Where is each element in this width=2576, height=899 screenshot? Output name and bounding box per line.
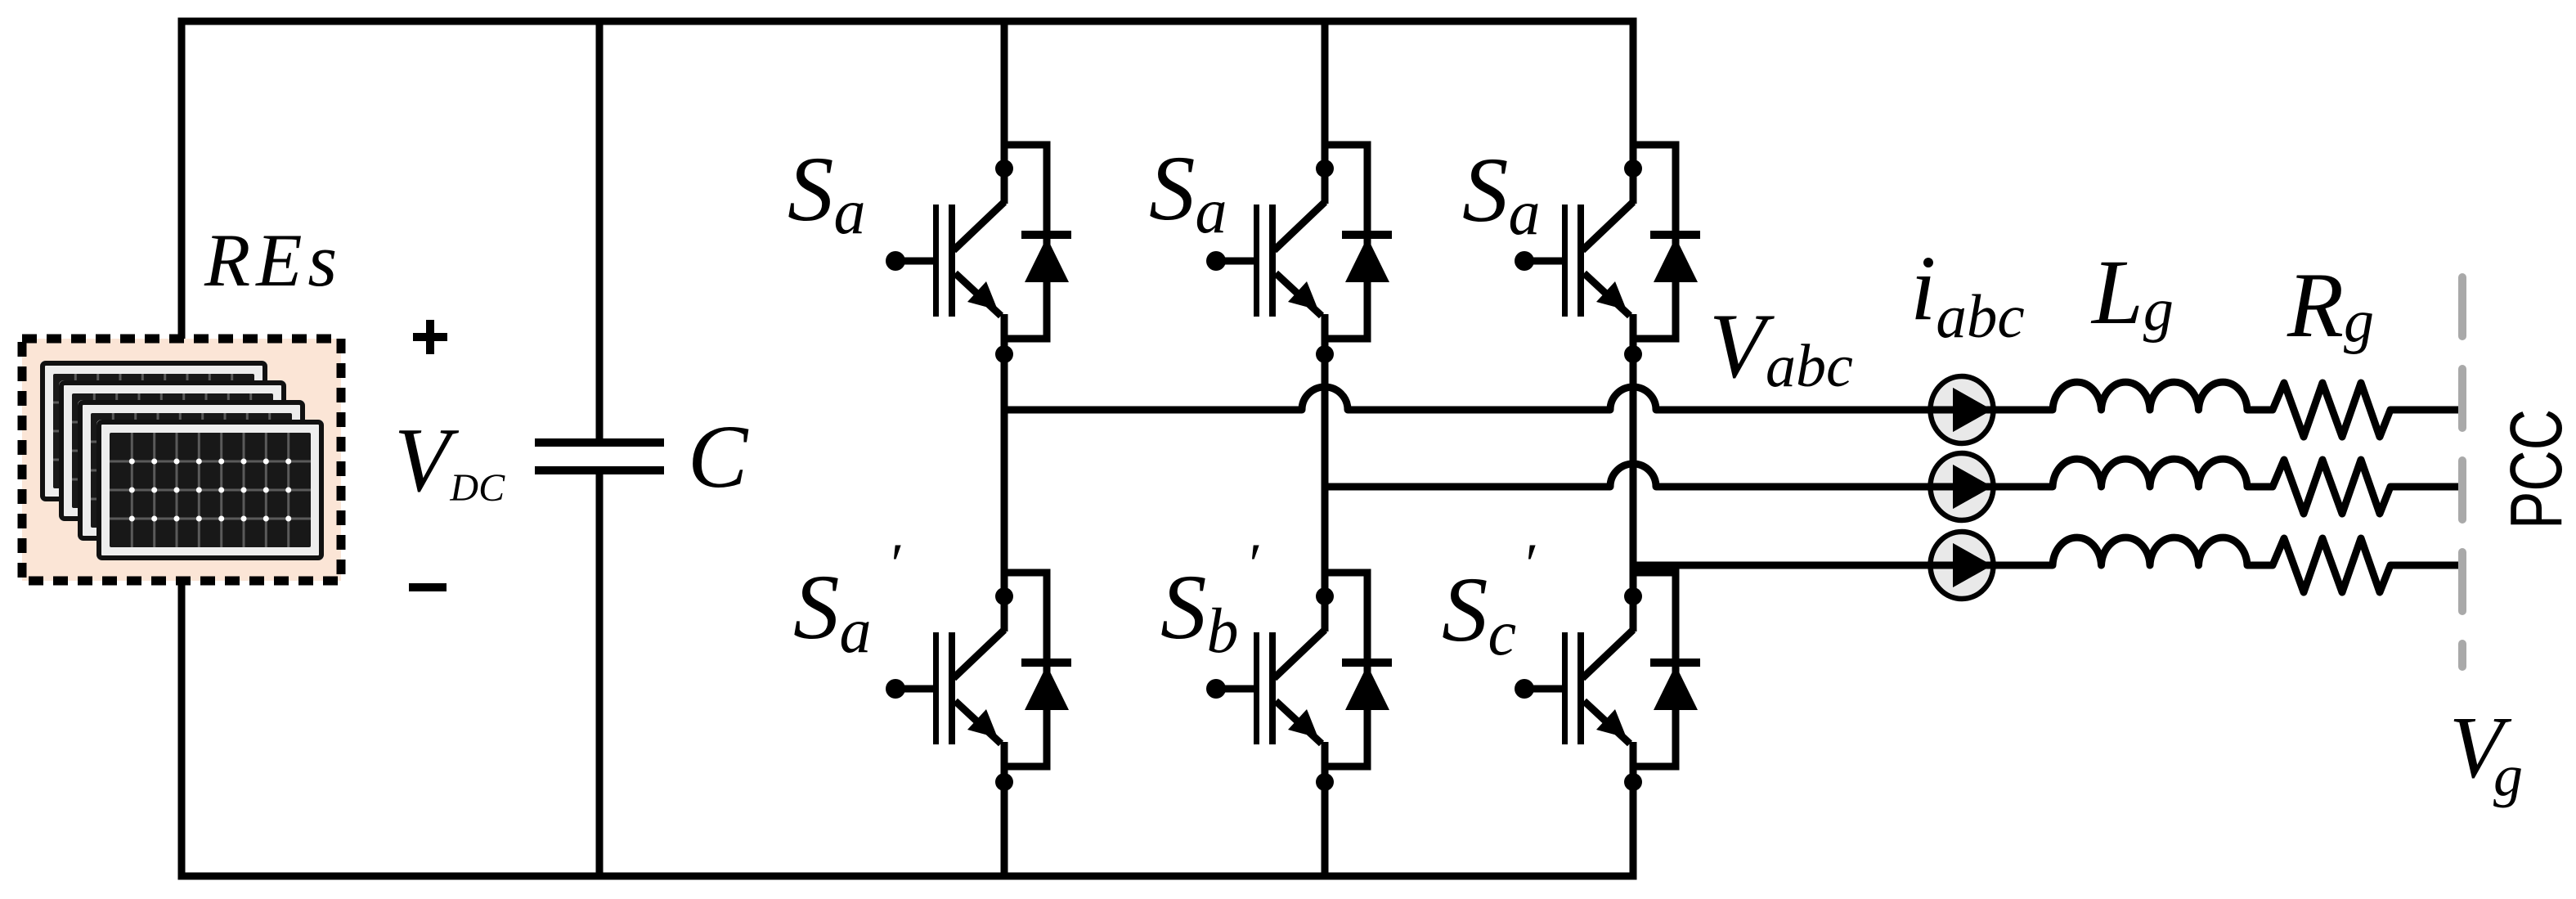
svg-text:PCC: PCC <box>2496 409 2576 529</box>
svg-text:′: ′ <box>1245 532 1259 597</box>
svg-text:REs: REs <box>204 218 343 302</box>
svg-text:′: ′ <box>1522 532 1536 597</box>
svg-text:′: ′ <box>887 532 901 597</box>
svg-text:C: C <box>688 407 749 506</box>
